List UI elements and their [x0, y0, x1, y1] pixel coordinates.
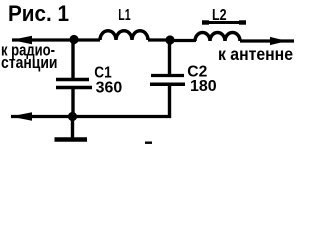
svg-text:Рис. 1: Рис. 1 [8, 1, 69, 26]
svg-text:360: 360 [96, 79, 123, 96]
wire: node B to L2 [172, 39, 196, 42]
label "к радио-станции" [1, 41, 58, 71]
ground bar [55, 137, 88, 142]
arrowhead: to antenna (points right) [270, 37, 287, 45]
svg-text:180: 180 [190, 78, 217, 95]
arrowhead: bottom rail to radio station (points left) [11, 112, 33, 120]
svg-text:L1: L1 [118, 7, 130, 24]
wire: ground stub [71, 117, 74, 139]
svg-text:станции: станции [1, 54, 58, 72]
inductor L2 [195, 33, 240, 42]
capacitor C1 [56, 40, 92, 117]
label L2 underline bar [202, 21, 246, 24]
wire: L1 to node B [148, 38, 168, 41]
node B: junction L1 / L2 / C2 [165, 35, 174, 44]
stray scan mark [145, 142, 152, 144]
node C: junction bottom rail / C1 / ground [68, 112, 77, 121]
svg-text:к антенне: к антенне [218, 44, 293, 64]
node A: junction input / C1 [69, 35, 78, 44]
arrowhead: to radio station (points left) [12, 36, 33, 44]
inductor L1 [100, 31, 148, 40]
wire: bottom rail [11, 115, 171, 118]
wire: L2 to antenna output [240, 39, 294, 42]
wire: top rail, input segment to node A and on to L1 [12, 38, 100, 41]
capacitor C2 [150, 40, 185, 118]
